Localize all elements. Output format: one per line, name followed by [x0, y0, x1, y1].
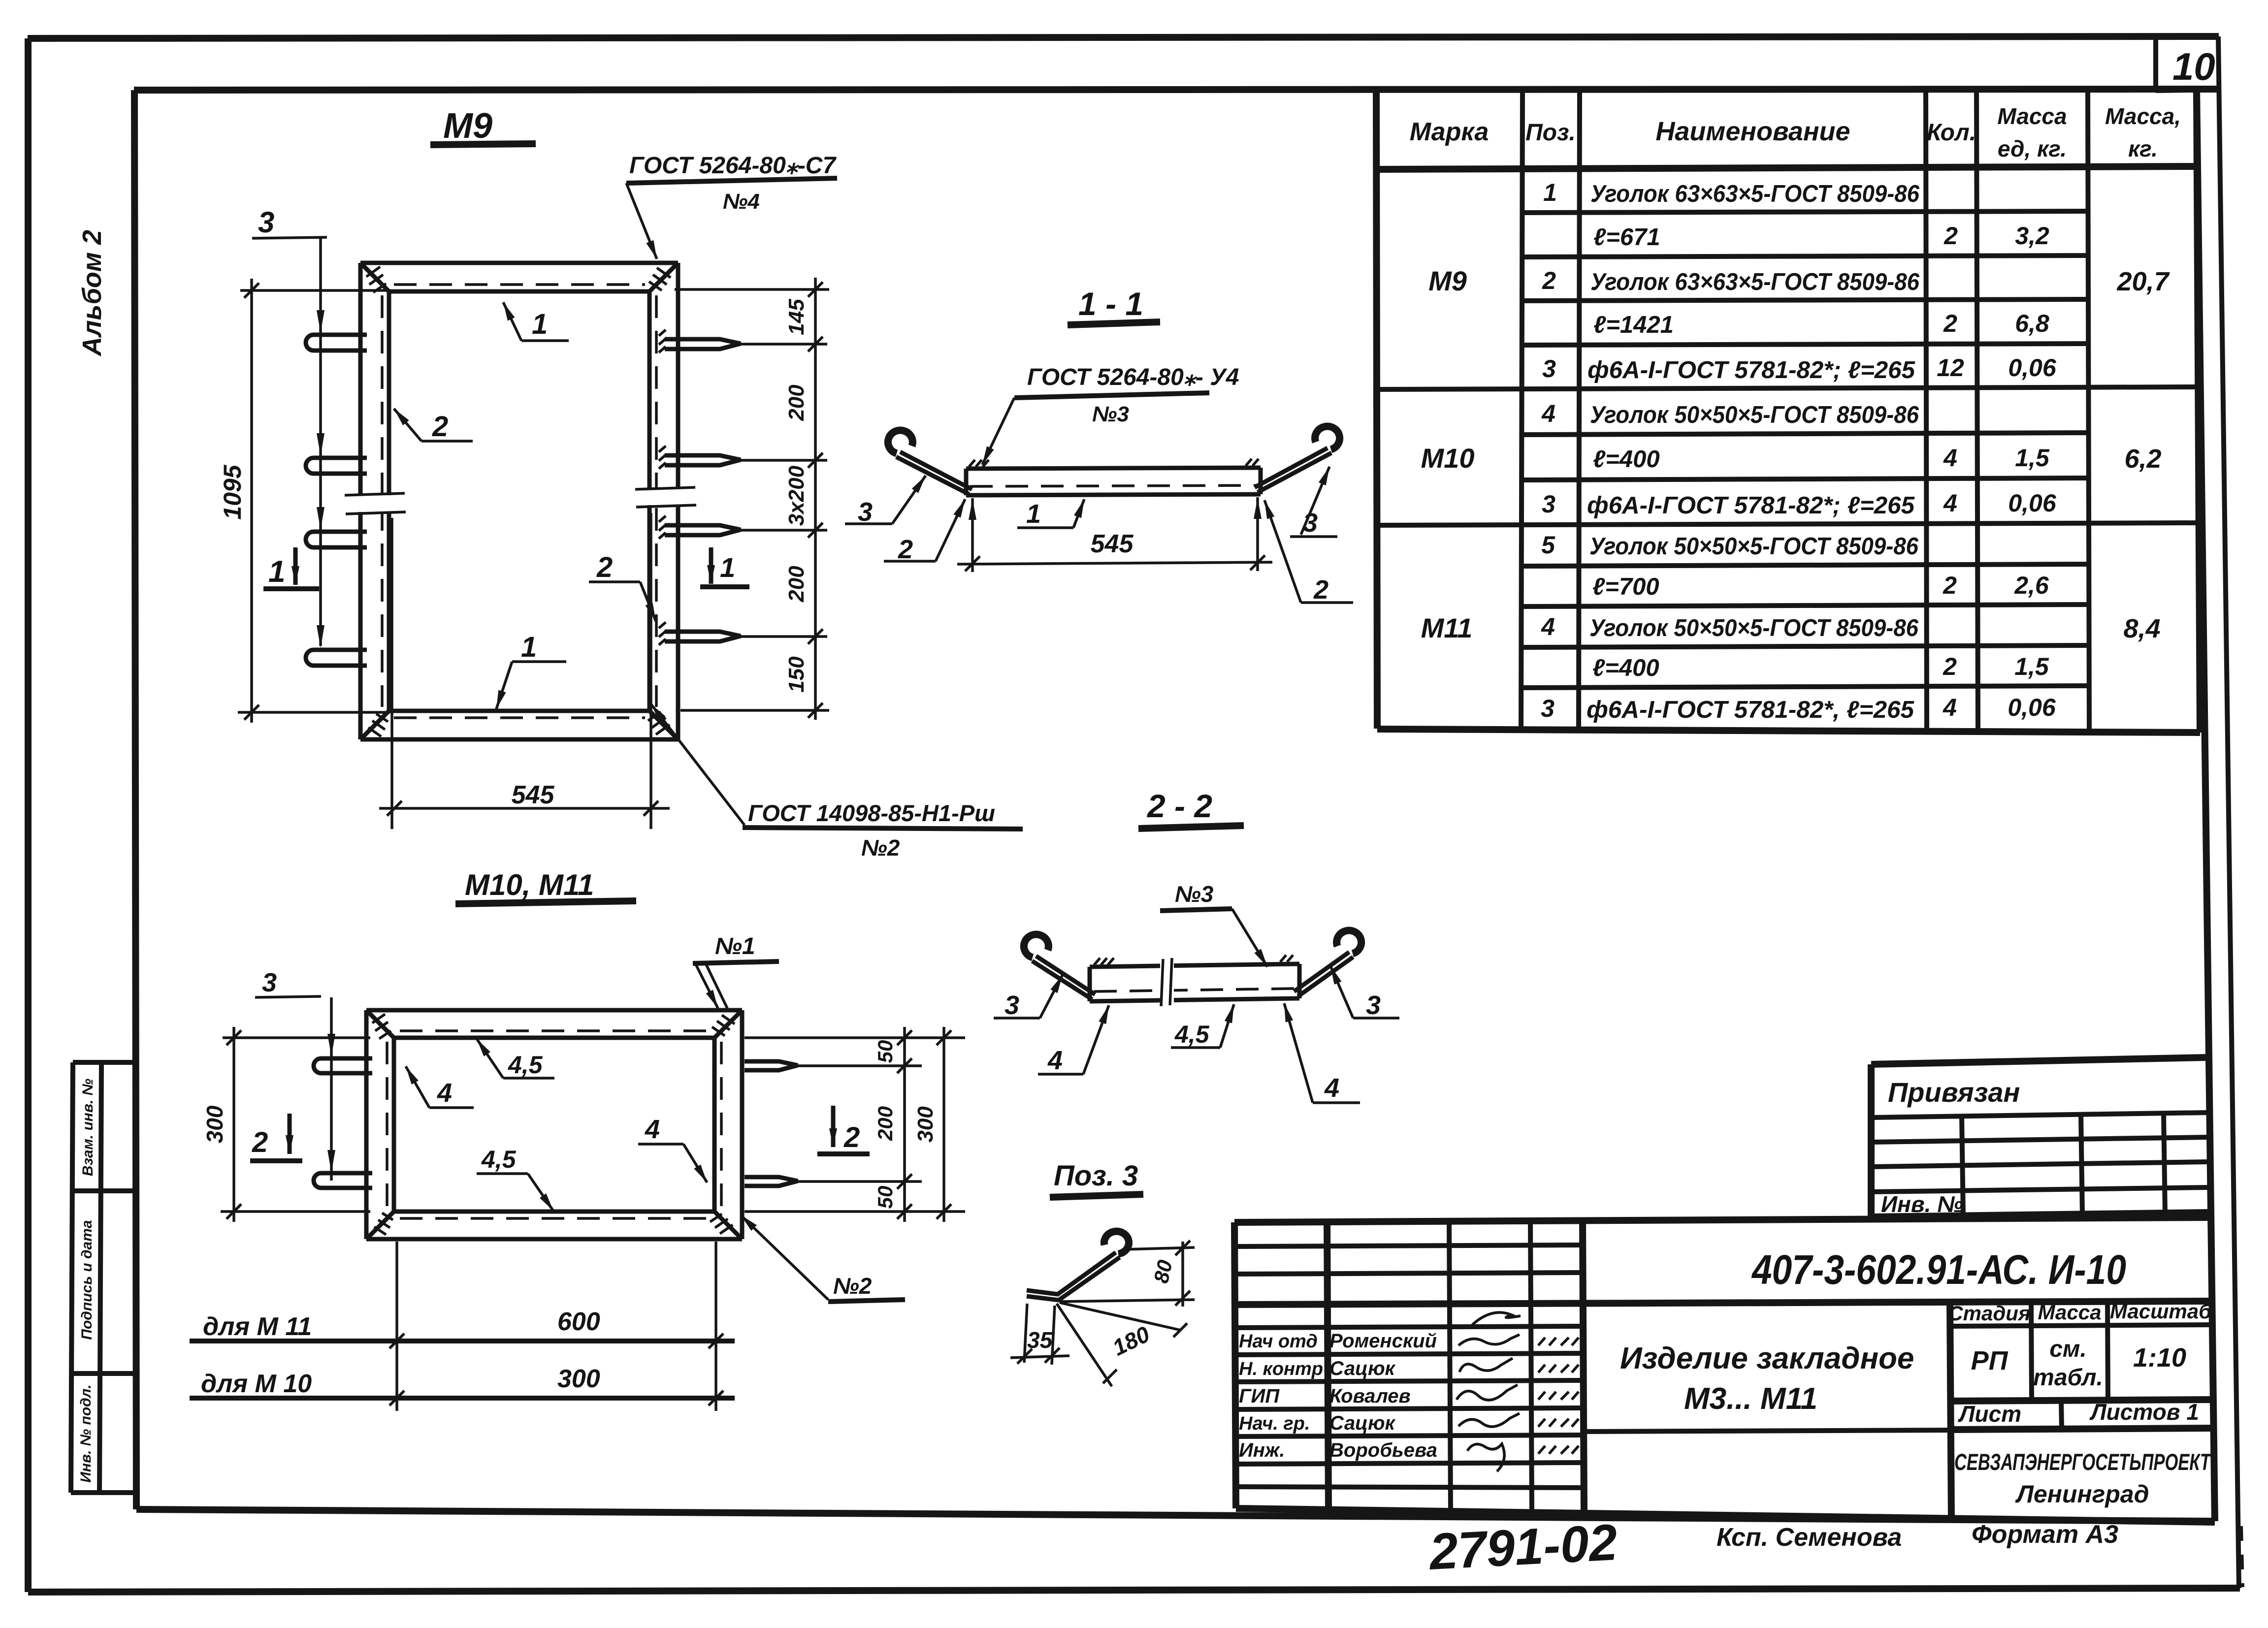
svg-text:4: 4	[437, 1078, 452, 1108]
svg-text:ГОСТ 5264-80⁎- У4: ГОСТ 5264-80⁎- У4	[1027, 364, 1239, 390]
svg-text:см.: см.	[2049, 1336, 2087, 1362]
svg-text:35: 35	[1027, 1327, 1053, 1353]
table right edge	[2197, 90, 2200, 733]
signature squiggles	[1457, 1312, 1579, 1471]
row lines M9	[1522, 211, 2089, 213]
svg-text:1: 1	[1026, 499, 1041, 529]
svg-text:2: 2	[1943, 653, 1957, 680]
svg-text:Наименование: Наименование	[1655, 117, 1850, 146]
svg-text:Привязан: Привязан	[1888, 1077, 2020, 1108]
svg-text:2,6: 2,6	[2014, 572, 2049, 599]
svg-text:8,4: 8,4	[2123, 614, 2160, 643]
FOOT	[1427, 1514, 2242, 1587]
dim 545 of section	[971, 498, 974, 572]
inner frame top	[134, 89, 2218, 90]
right dim 300	[942, 1027, 945, 1222]
corner weld hatches M9	[366, 267, 671, 736]
svg-text:4: 4	[1943, 444, 1957, 472]
frame outer rect	[366, 1010, 742, 1239]
svg-text:ℓ=671: ℓ=671	[1593, 224, 1660, 251]
outer page border bottom	[28, 1588, 2240, 1592]
PRIV	[1871, 1057, 2210, 1217]
svg-text:Масса: Масса	[1997, 103, 2067, 129]
hook anchor left 4	[306, 650, 367, 666]
svg-text:1095: 1095	[219, 464, 246, 519]
hook anchor left 2	[314, 1173, 372, 1188]
hook anchor left 2	[306, 458, 367, 474]
svg-text:Уголок 50×50×5-ГОСТ 8509-86: Уголок 50×50×5-ГОСТ 8509-86	[1589, 533, 1919, 560]
size table ext verticals	[395, 1242, 398, 1411]
pin anchor right 1	[745, 1061, 798, 1070]
pin anchor right 3	[665, 525, 741, 535]
M9	[219, 106, 1023, 861]
left dim 300	[223, 1036, 370, 1039]
pin anchor right 2	[665, 455, 741, 465]
svg-text:Нач. гр.: Нач. гр.	[1239, 1413, 1310, 1434]
right hook of section	[1258, 453, 1331, 492]
svg-text:545: 545	[1091, 530, 1134, 558]
svg-text:Подпись и дата: Подпись и дата	[79, 1220, 95, 1340]
svg-text:600: 600	[557, 1308, 600, 1336]
svg-text:2: 2	[1944, 222, 1958, 250]
column Marka/Poz	[1521, 90, 1523, 729]
section line M9/M10	[1377, 387, 2199, 389]
svg-text:для М 11: для М 11	[203, 1312, 312, 1341]
svg-text:10: 10	[2172, 45, 2215, 88]
svg-text:Изделие закладное: Изделие закладное	[1620, 1341, 1914, 1375]
svg-text:Уголок 50×50×5-ГОСТ 8509-86: Уголок 50×50×5-ГОСТ 8509-86	[1590, 402, 1919, 428]
svg-text:2791-02: 2791-02	[1427, 1514, 1619, 1581]
svg-text:6,2: 6,2	[2124, 444, 2161, 474]
svg-text:ф6А-I-ГОСТ 5781-82*; ℓ=265: ф6А-I-ГОСТ 5781-82*; ℓ=265	[1587, 492, 1915, 519]
TABLE	[1376, 90, 2200, 733]
POS3	[1010, 1160, 1195, 1386]
frame inner rect	[394, 1036, 714, 1040]
svg-text:3: 3	[1366, 990, 1381, 1020]
svg-text:2: 2	[1542, 267, 1556, 294]
plate side view	[1090, 964, 1299, 1001]
M10	[190, 868, 965, 1411]
outer page border left	[25, 38, 32, 1592]
svg-text:2 - 2: 2 - 2	[1146, 788, 1212, 824]
hook detail	[1027, 1252, 1116, 1294]
corner bevels	[366, 1010, 394, 1038]
frame outer rect	[360, 263, 678, 739]
svg-text:2: 2	[1943, 572, 1957, 599]
inner frame left	[134, 90, 136, 1509]
svg-text:3,2: 3,2	[2015, 222, 2049, 250]
svg-text:табл.: табл.	[2033, 1365, 2103, 1391]
svg-text:Инв. № подл.: Инв. № подл.	[78, 1384, 94, 1482]
column Massa-ed/Massa	[2088, 90, 2089, 732]
svg-text:4: 4	[1943, 489, 1957, 517]
svg-text:Уголок 63×63×5-ГОСТ 8509-86: Уголок 63×63×5-ГОСТ 8509-86	[1590, 269, 1920, 295]
svg-text:4: 4	[1324, 1073, 1339, 1103]
section mark 2 right	[831, 1106, 836, 1147]
svg-text:Стадия: Стадия	[1948, 1302, 2030, 1325]
dim 180	[1060, 1303, 1181, 1330]
svg-text:545: 545	[512, 781, 555, 809]
right ext lines	[745, 1036, 965, 1039]
svg-text:50: 50	[874, 1186, 897, 1209]
svg-text:1:10: 1:10	[2133, 1343, 2186, 1373]
title block outline	[1234, 1217, 2214, 1222]
svg-text:3: 3	[1541, 695, 1555, 722]
svg-text:145: 145	[784, 299, 809, 335]
svg-text:Поз.: Поз.	[1525, 120, 1576, 146]
svg-text:для М 10: для М 10	[201, 1370, 312, 1398]
svg-text:3: 3	[1542, 355, 1556, 383]
svg-text:3: 3	[858, 497, 873, 527]
svg-text:Масштаб: Масштаб	[2110, 1300, 2212, 1323]
svg-text:Инв. №: Инв. №	[1881, 1191, 1963, 1217]
dim 545 extensions	[390, 518, 393, 829]
dim 1095 left	[240, 289, 390, 292]
svg-text:12: 12	[1937, 354, 1964, 382]
svg-text:Роменский: Роменский	[1329, 1330, 1437, 1352]
hook anchor top-left	[306, 335, 367, 351]
svg-text:М10: М10	[1421, 443, 1475, 474]
hidden dashed lines of angles	[382, 285, 656, 718]
svg-text:ℓ=700: ℓ=700	[1592, 574, 1659, 600]
column Poz/Naimenovanie	[1579, 90, 1580, 730]
header bottom	[1376, 166, 2198, 169]
svg-text:М3... М11: М3... М11	[1684, 1382, 1817, 1416]
svg-text:1: 1	[532, 308, 548, 340]
right dim chain	[814, 278, 817, 720]
svg-text:РП: РП	[1971, 1346, 2009, 1375]
section mark 1 right	[709, 547, 713, 584]
svg-text:Сацюк: Сацюк	[1329, 1358, 1396, 1379]
svg-text:Сацюк: Сацюк	[1329, 1412, 1396, 1434]
right hook	[1298, 957, 1353, 996]
svg-text:Ковалев: Ковалев	[1329, 1385, 1411, 1407]
svg-text:3: 3	[258, 206, 274, 239]
dashed border piece bottom right	[2240, 1526, 2242, 1587]
svg-text:2: 2	[1943, 310, 1957, 337]
plate side view	[966, 468, 1261, 495]
svg-text:Масса,: Масса,	[2105, 103, 2181, 129]
svg-text:0,06: 0,06	[2008, 694, 2056, 721]
break mark right bar	[635, 487, 695, 489]
svg-text:4: 4	[1541, 613, 1555, 640]
svg-text:4: 4	[645, 1115, 660, 1144]
hidden dashed lines	[387, 1031, 721, 1218]
svg-text:М9: М9	[443, 106, 492, 146]
svg-text:150: 150	[784, 656, 809, 693]
svg-text:Лист: Лист	[1958, 1401, 2021, 1427]
svg-text:200: 200	[874, 1106, 897, 1141]
svg-text:200: 200	[784, 566, 809, 603]
right part verticals	[1950, 1303, 1951, 1521]
svg-text:Формат А3: Формат А3	[1972, 1520, 2118, 1549]
svg-text:ф6А-I-ГОСТ 5781-82*; ℓ=265: ф6А-I-ГОСТ 5781-82*; ℓ=265	[1588, 357, 1915, 383]
svg-text:Уголок 63×63×5-ГОСТ 8509-86: Уголок 63×63×5-ГОСТ 8509-86	[1590, 181, 1920, 207]
pin anchor right 4	[665, 632, 741, 641]
designation cell bottom thick	[1235, 1301, 2214, 1305]
name cell bottom	[1584, 1430, 1951, 1432]
svg-text:300: 300	[557, 1365, 600, 1393]
column Naim/Kol	[1926, 90, 1927, 731]
svg-text:1,5: 1,5	[2015, 444, 2050, 472]
inner frame right	[2197, 90, 2215, 1521]
stamp rows	[1235, 1245, 1584, 1488]
corner weld hatches	[372, 1014, 735, 1235]
svg-text:ГОСТ 5264-80⁎-С7: ГОСТ 5264-80⁎-С7	[629, 153, 837, 179]
stamp verticals	[1327, 1222, 1328, 1509]
dim 80	[1124, 1247, 1195, 1249]
svg-text:407-3-602.91-АС. И-10: 407-3-602.91-АС. И-10	[1751, 1246, 2126, 1293]
svg-text:М9: М9	[1428, 265, 1467, 296]
SEC11	[845, 286, 1353, 605]
hook anchor left 1	[314, 1058, 372, 1073]
break mark left bar	[345, 493, 405, 495]
svg-text:2: 2	[596, 551, 613, 583]
svg-text:№1: №1	[715, 933, 755, 959]
svg-text:3: 3	[1004, 990, 1019, 1020]
corner bevels	[360, 263, 389, 291]
weld ticks plate ends	[1094, 955, 1293, 965]
svg-text:ℓ=400: ℓ=400	[1592, 655, 1659, 681]
privyazan table	[1871, 1057, 2207, 1064]
svg-text:1: 1	[268, 555, 285, 589]
hook anchor left 3	[306, 532, 367, 547]
svg-text:№3: №3	[1175, 881, 1214, 907]
svg-text:Альбом 2: Альбом 2	[77, 230, 107, 357]
svg-text:Ленинград: Ленинград	[2015, 1480, 2149, 1508]
table outline	[1376, 90, 1377, 729]
svg-text:200: 200	[784, 384, 809, 421]
svg-text:Кол.: Кол.	[1927, 120, 1976, 146]
svg-text:6,8: 6,8	[2015, 310, 2049, 337]
svg-text:Уголок 50×50×5-ГОСТ 8509-86: Уголок 50×50×5-ГОСТ 8509-86	[1589, 615, 1919, 641]
dim 545	[379, 807, 670, 810]
row lines M11	[1521, 564, 2089, 566]
svg-text:1: 1	[720, 552, 735, 583]
outer page border top	[28, 36, 2219, 38]
frame inner rect	[389, 289, 649, 294]
svg-text:кг.: кг.	[2128, 136, 2158, 161]
weld note GOST 14098	[651, 704, 745, 825]
svg-text:№4: №4	[723, 190, 760, 214]
svg-text:0,06: 0,06	[2008, 489, 2057, 517]
svg-text:5: 5	[1541, 531, 1555, 559]
svg-text:80: 80	[1149, 1258, 1177, 1285]
break gaps	[352, 495, 401, 512]
svg-text:№2: №2	[833, 1273, 872, 1299]
label N2	[741, 1215, 828, 1300]
svg-text:4,5: 4,5	[481, 1146, 517, 1173]
weld ticks plate ends	[969, 459, 1259, 467]
svg-text:50: 50	[874, 1040, 897, 1063]
sheet number cell	[2153, 37, 2158, 91]
svg-text:ед, кг.: ед, кг.	[1998, 136, 2067, 161]
svg-text:3х200: 3х200	[784, 465, 809, 526]
svg-text:300: 300	[913, 1106, 938, 1143]
svg-text:Поз. 3: Поз. 3	[1054, 1160, 1138, 1192]
svg-text:3: 3	[1542, 490, 1555, 518]
svg-text:2: 2	[252, 1126, 268, 1158]
svg-text:Марка: Марка	[1410, 118, 1489, 146]
svg-text:Н. контр: Н. контр	[1239, 1359, 1323, 1379]
svg-text:4: 4	[1943, 694, 1957, 721]
svg-text:1,5: 1,5	[2014, 653, 2049, 680]
svg-text:4: 4	[1047, 1046, 1063, 1075]
svg-text:Взам. инв. №: Взам. инв. №	[80, 1079, 96, 1176]
svg-text:ℓ=400: ℓ=400	[1593, 446, 1660, 473]
margin stamp strip	[71, 1062, 136, 1493]
svg-text:1: 1	[521, 631, 537, 663]
svg-text:1: 1	[1543, 179, 1557, 206]
svg-text:3: 3	[262, 968, 277, 997]
svg-text:Масса: Масса	[2038, 1301, 2102, 1324]
svg-text:М11: М11	[1421, 612, 1473, 643]
svg-text:Воробьева: Воробьева	[1329, 1439, 1437, 1461]
right part rows	[1950, 1325, 2214, 1326]
svg-text:СЕВЗАПЭНЕРГОСЕТЬПРОЕКТ: СЕВЗАПЭНЕРГОСЕТЬПРОЕКТ	[1954, 1449, 2212, 1475]
outer page border right	[2218, 36, 2239, 1588]
plate break	[1160, 960, 1174, 1005]
svg-text:0,06: 0,06	[2008, 354, 2057, 382]
svg-text:4,5: 4,5	[1174, 1021, 1210, 1048]
svg-text:2: 2	[432, 411, 448, 443]
svg-text:Листов 1: Листов 1	[2089, 1399, 2199, 1425]
svg-text:2: 2	[898, 535, 913, 564]
svg-text:2: 2	[843, 1121, 860, 1153]
dim 35	[1024, 1304, 1027, 1363]
svg-text:4: 4	[1541, 400, 1555, 427]
svg-text:1 - 1: 1 - 1	[1078, 286, 1143, 322]
pin anchor right 1	[665, 339, 741, 349]
svg-text:Ксп. Семенова: Ксп. Семенова	[1717, 1523, 1902, 1552]
left hook	[1032, 961, 1092, 999]
svg-text:№2: №2	[861, 835, 900, 861]
weld ticks pins	[659, 330, 666, 645]
right chain 50/200/50	[903, 1027, 906, 1222]
right dim chain extensions	[675, 288, 829, 291]
svg-text:Инж.: Инж.	[1239, 1439, 1285, 1461]
column Kol/Massa-ed	[1976, 90, 1978, 731]
TITLEBLOCK	[1234, 1217, 2215, 1522]
svg-text:ГОСТ 14098-85-Н1-Рш: ГОСТ 14098-85-Н1-Рш	[748, 800, 995, 826]
left hook of section	[896, 457, 969, 494]
svg-text:ф6А-I-ГОСТ 5781-82*, ℓ=265: ф6А-I-ГОСТ 5781-82*, ℓ=265	[1587, 697, 1914, 723]
pin anchor right 2	[745, 1177, 798, 1186]
section line M10/M11	[1377, 523, 2199, 525]
svg-text:ГИП: ГИП	[1239, 1385, 1280, 1407]
inner frame bottom	[136, 1509, 2215, 1521]
svg-text:2: 2	[1313, 575, 1328, 605]
svg-text:М10, М11: М10, М11	[465, 868, 594, 901]
row lines M10	[1521, 433, 2089, 435]
svg-text:20,7: 20,7	[2116, 267, 2170, 296]
svg-text:ℓ=1421: ℓ=1421	[1593, 312, 1674, 338]
SEC22	[994, 788, 1399, 1103]
svg-text:300: 300	[202, 1105, 227, 1143]
svg-text:№3: №3	[1092, 402, 1129, 426]
svg-text:4,5: 4,5	[508, 1051, 543, 1079]
svg-text:Нач отд: Нач отд	[1239, 1331, 1318, 1352]
